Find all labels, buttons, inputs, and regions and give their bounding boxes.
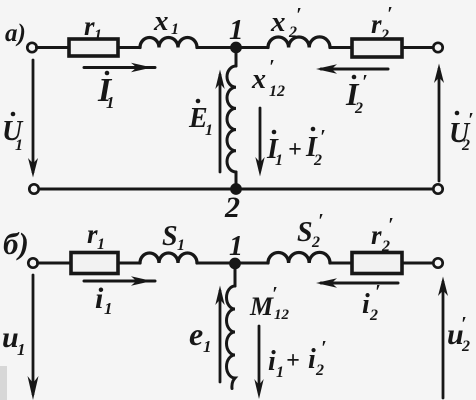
wire (197, 262, 268, 265)
svg-text:1: 1 (17, 340, 26, 359)
terminal bottom-right (433, 184, 442, 193)
resistor r1 (b) (71, 253, 118, 274)
bottom wire (38, 188, 432, 191)
svg-text:i: i (308, 344, 316, 375)
svg-text:r: r (371, 220, 382, 250)
svg-text:2: 2 (381, 238, 390, 255)
inductor x12 (magnetizing branch) (227, 66, 236, 172)
svg-text:б): б) (3, 226, 29, 261)
terminal bottom-left (29, 184, 38, 193)
label I1+I2' (266, 126, 326, 169)
label I2' (345, 71, 368, 117)
svg-text:′: ′ (461, 313, 467, 335)
arrow I1 (84, 66, 155, 69)
arrow I2' (321, 68, 388, 71)
resistor R1 (69, 39, 118, 56)
arrow e1 (points up) (219, 291, 222, 382)
arrow i2' (321, 282, 398, 285)
arrow U1 (voltage, points down) (32, 60, 35, 172)
svg-text:i: i (95, 282, 104, 315)
wire node1 to coil (235, 52, 238, 66)
scan shadow left bottom edge (0, 366, 7, 400)
svg-text:+: + (288, 137, 302, 163)
svg-text:x: x (251, 64, 266, 95)
svg-text:1: 1 (205, 122, 213, 139)
svg-text:1: 1 (104, 299, 113, 318)
svg-text:12: 12 (269, 83, 285, 100)
label i1+i2' (268, 337, 327, 381)
terminal top-left (27, 43, 36, 52)
svg-text:1: 1 (275, 152, 283, 169)
svg-text:′: ′ (375, 281, 381, 303)
svg-text:2: 2 (313, 152, 322, 169)
label x12' (251, 56, 285, 100)
wire (38, 262, 72, 265)
label U2' (449, 109, 474, 154)
svg-text:′: ′ (269, 56, 275, 78)
svg-text:1: 1 (106, 93, 115, 112)
label i1 (95, 282, 113, 318)
svg-text:2: 2 (354, 100, 363, 117)
arrow I1+I2' (points down) (259, 108, 262, 170)
label i2' (362, 281, 381, 324)
wire node1b to coil (234, 268, 237, 286)
svg-text:1: 1 (203, 337, 212, 356)
resistor r2' (b) (352, 253, 402, 274)
svg-text:1: 1 (276, 364, 284, 381)
arrow u1 (points down) (32, 275, 35, 394)
wire (197, 46, 268, 49)
inductor S1 (140, 253, 197, 263)
wire (330, 262, 352, 265)
svg-text:12: 12 (274, 307, 290, 323)
svg-text:2: 2 (461, 338, 470, 355)
wire coil to node2 (235, 172, 238, 185)
svg-text:′: ′ (388, 214, 394, 236)
node 2 (230, 183, 242, 195)
svg-text:2: 2 (380, 27, 389, 44)
svg-text:1: 1 (94, 27, 102, 44)
svg-text:2: 2 (288, 24, 297, 41)
svg-text:S: S (297, 217, 313, 248)
label S1 (162, 221, 185, 254)
wire (402, 262, 434, 265)
terminal top-right (433, 43, 442, 52)
arrow i1+i2' (points down) (258, 326, 261, 392)
terminal left (b) (28, 258, 37, 267)
svg-text:M: M (249, 292, 274, 321)
label r2' (b) (371, 214, 394, 255)
label x1 (153, 5, 179, 38)
label r1 (b) (87, 219, 105, 253)
resistor R2' (352, 39, 402, 57)
svg-text:1: 1 (15, 137, 23, 154)
arrow u2' (points up) (442, 282, 445, 398)
svg-text:x: x (153, 5, 169, 37)
label r2' (371, 3, 393, 44)
svg-text:′: ′ (387, 3, 393, 25)
node 1 (b) (229, 258, 241, 270)
label r1 (84, 11, 102, 44)
svg-text:2: 2 (369, 307, 378, 324)
label u2' (447, 313, 470, 355)
inductor M12 (mutual branch) (227, 286, 236, 389)
svg-text:′: ′ (272, 283, 278, 305)
terminal right (b) (433, 258, 442, 267)
svg-text:′: ′ (320, 126, 326, 148)
label S2' (297, 210, 324, 251)
svg-text:1: 1 (171, 21, 179, 38)
wire (118, 46, 140, 49)
label U1 (2, 112, 24, 154)
svg-text:2: 2 (461, 137, 470, 154)
label e1 (189, 316, 212, 356)
inductor x2' (268, 37, 330, 48)
svg-text:а): а) (5, 20, 26, 47)
wire (330, 46, 352, 49)
wire (402, 46, 434, 49)
inductor x1 (140, 38, 197, 48)
svg-text:x: x (270, 6, 286, 38)
wire (118, 262, 140, 265)
svg-text:1: 1 (97, 236, 105, 253)
wire (37, 46, 70, 49)
svg-text:′: ′ (296, 4, 302, 26)
svg-text:S: S (162, 221, 178, 252)
svg-text:e: e (189, 316, 203, 352)
svg-text:2: 2 (311, 234, 320, 251)
label u1 (2, 321, 26, 359)
svg-text:′: ′ (468, 109, 474, 131)
svg-text:′: ′ (362, 71, 368, 93)
label M12' (249, 283, 290, 323)
arrow i1 (84, 280, 155, 283)
svg-text:1: 1 (177, 237, 185, 254)
label I1 (97, 71, 115, 112)
svg-text:1: 1 (229, 231, 243, 262)
label x2' (270, 4, 302, 41)
arrow U2' (voltage, points up) (438, 69, 441, 181)
inductor S2' (268, 252, 330, 263)
svg-text:+: + (286, 348, 300, 374)
arrow E1 (emf, points up) (219, 75, 222, 172)
svg-text:′: ′ (318, 210, 324, 232)
node 1 (230, 42, 242, 54)
label E1 (188, 99, 213, 139)
svg-text:i: i (268, 346, 276, 377)
svg-text:i: i (362, 289, 370, 320)
svg-text:2: 2 (224, 191, 240, 224)
svg-text:2: 2 (315, 362, 324, 379)
svg-text:1: 1 (229, 14, 244, 46)
svg-text:′: ′ (321, 337, 327, 359)
